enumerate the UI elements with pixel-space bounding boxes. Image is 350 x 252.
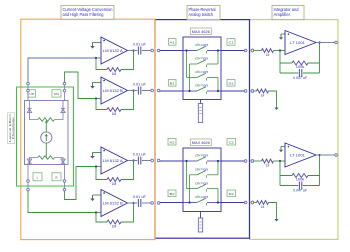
junction at integrator input (U6) [279, 160, 281, 162]
wire: port to switch 4 row 4 [160, 202, 183, 204]
svg-text:clk=on: clk=on [195, 84, 208, 88]
input port of section 2 (U2B row) [157, 202, 160, 205]
wire: output of U5 [316, 42, 335, 44]
coupling capacitor 0.01 uF of U2B [138, 199, 140, 207]
svg-text:clk=on: clk=on [195, 43, 208, 47]
bottom resistor of photodiode [30, 156, 64, 165]
feedback resistor 1M of U1B [107, 108, 121, 112]
svg-text:LT 1001: LT 1001 [290, 41, 305, 45]
diode top-right [61, 101, 65, 117]
junction at input of U2A [95, 165, 97, 167]
feedback capacitor 0.047 uF of U5 [299, 69, 301, 77]
switch SW1 of U3 [183, 43, 221, 53]
ground of integrator U5 [279, 34, 285, 40]
wire: output of U2A to coupling capacitor [128, 160, 151, 162]
op-amp U1B [101, 77, 128, 104]
output port of section 1 (U1B) [151, 89, 154, 92]
wire: input lead of U1A [96, 57, 101, 59]
label 0.01 uF of U1B [133, 83, 146, 87]
input port of section 2 (U1A row) [157, 49, 160, 52]
svg-text:LM 6132 B: LM 6132 B [103, 202, 124, 206]
svg-text:1M: 1M [112, 182, 117, 186]
svg-text:A2: A2 [170, 140, 175, 144]
svg-text:and High Pass Filtering: and High Pass Filtering [63, 12, 105, 17]
label 0.047 uF of U6 [293, 189, 307, 193]
wire: input lead of U2B [96, 212, 101, 214]
svg-text:0.047 uF: 0.047 uF [293, 76, 307, 80]
label 1M of U2B [112, 224, 117, 228]
wire: input lead of U1B [96, 98, 101, 100]
junction in U4 [217, 160, 219, 162]
svg-text:0.01 uF: 0.01 uF [133, 43, 146, 47]
crossover wire left B of U4 [189, 175, 191, 203]
svg-text:LM 6132 A: LM 6132 A [103, 159, 124, 163]
svg-text:clk=on: clk=on [195, 154, 208, 158]
terminal top-left of photodiode [27, 82, 30, 100]
wire: input lead of U2A [96, 166, 101, 168]
termination resistor 1k (U6) [257, 201, 269, 205]
switch SW3 of U3 [187, 70, 219, 80]
wire: U4 row 1 to output port [221, 160, 244, 162]
wire: port to termination resistor (U6) [254, 202, 257, 204]
output port pair row 1 of U3 [244, 49, 253, 52]
wire: photodiode R terminal to op-amp U2A input [65, 167, 97, 200]
crossover wire right C of U3 [217, 51, 219, 65]
analog switch IC body U4 [183, 148, 221, 212]
switch SW4 of U4 [183, 195, 221, 205]
label 1k termination (U6) [261, 205, 265, 209]
svg-text:Photodiode: Photodiode [11, 117, 15, 139]
net label box DN [52, 90, 61, 97]
switch SW4 of U3 [183, 84, 221, 94]
ground of integrator U6 [279, 147, 285, 153]
feedback wire of U2A [96, 161, 134, 180]
wire: output of U1A to coupling capacitor [128, 50, 151, 52]
output port pair row 1 of U4 [244, 160, 253, 163]
section box 2: Phase-Reversal Analog Switch (navy) [155, 20, 250, 239]
coupling capacitor 0.01 uF of U1A [138, 47, 140, 55]
wire: output of U2B to coupling capacitor [128, 202, 151, 204]
title box: Integrator and Amplifier [272, 6, 304, 20]
svg-text:1M: 1M [112, 224, 117, 228]
wire: photodiode L terminal to op-amp U2B input [28, 191, 96, 213]
op-amp LT 1001 (U5) [285, 31, 316, 55]
switch SW3 of U4 [187, 181, 219, 191]
junction in U3 [217, 49, 219, 51]
op-amp LT 1001 (U6) [285, 143, 316, 167]
net label box B1 [169, 80, 177, 87]
output port pair row 4 of U3 [244, 90, 253, 93]
feedback resistor 100k of U6 [292, 174, 308, 178]
termination input port (U5) [251, 90, 254, 93]
net label box B2 [168, 190, 176, 197]
svg-text:clk=on: clk=on [195, 195, 208, 199]
load resistor below U4 [198, 212, 202, 233]
junction in U3 [185, 49, 187, 51]
svg-text:100k: 100k [296, 65, 305, 69]
wire: port to resistor 1k (U5) [254, 50, 262, 52]
junction at input of U1A [95, 57, 97, 59]
label 1k of U5 [266, 53, 270, 57]
switch SW2 of U3 [190, 57, 219, 67]
wire: resistor to op-amp input (U6) [274, 160, 286, 162]
terminal top-right of photodiode [63, 82, 66, 100]
output port of section 1 (U2B) [151, 202, 154, 205]
switch SW1 of U4 [183, 154, 221, 164]
output port of U6 [335, 154, 338, 157]
wire: port to switch 3 row 4 [160, 90, 183, 92]
feedback capacitor 0.047 uF of U6 [299, 182, 301, 190]
feedback resistor 1M of U2A [107, 178, 121, 182]
label 0.01 uF of U1A [133, 43, 146, 47]
resistor 1k series of U5 [262, 49, 274, 53]
current source I1 [41, 132, 52, 143]
svg-text:1M: 1M [112, 72, 117, 76]
svg-text:clk=on: clk=on [195, 70, 208, 74]
svg-text:1k: 1k [266, 53, 270, 57]
output port of section 1 (U1A) [151, 49, 154, 52]
svg-text:1k: 1k [261, 205, 265, 209]
op-amp U1A [101, 37, 128, 64]
ground of U1B [90, 83, 101, 89]
feedback resistor 1M of U2B [107, 220, 121, 224]
wire: termination resistor to ground (U6) [269, 203, 279, 222]
junction at output of U1B [132, 89, 134, 91]
net label box A2 [168, 138, 176, 145]
feedback wire of U1A [96, 51, 134, 70]
net label box D2 [227, 190, 236, 197]
photodiode module outline (green box) [17, 87, 74, 186]
svg-text:0.01 uF: 0.01 uF [133, 153, 146, 157]
crossover wire right D of U4 [217, 189, 219, 203]
wire: port to termination resistor (U5) [254, 90, 257, 92]
label 100k of U5 [296, 65, 305, 69]
op-amp U2B [101, 190, 128, 217]
svg-text:C1: C1 [229, 41, 234, 45]
svg-text:LM 6132 A: LM 6132 A [103, 49, 124, 53]
junction in U4 [185, 160, 187, 162]
diode top-left [27, 101, 31, 117]
terminal bottom-left of photodiode [27, 165, 30, 191]
net label box C1 [227, 39, 235, 46]
wire from current source bottom to bottom resistor [45, 143, 47, 157]
svg-text:MAX 4626: MAX 4626 [192, 141, 210, 145]
wire: output of U6 [316, 154, 335, 156]
label 1M of U1A [112, 72, 117, 76]
output port of section 1 (U2A) [151, 159, 154, 162]
input port of section 2 (U2A row) [157, 159, 160, 162]
svg-text:clk=on: clk=on [195, 57, 208, 61]
crossover wire right D of U3 [217, 78, 219, 92]
net label box A1 [169, 39, 177, 46]
junction at input of U2B [95, 211, 97, 213]
svg-text:0.01 uF: 0.01 uF [133, 195, 146, 199]
wire: port to switch 4 row 1 [160, 160, 183, 162]
svg-text:A1: A1 [170, 41, 175, 45]
wire: resistor to op-amp input (U5) [274, 50, 286, 52]
switch SW2 of U4 [190, 168, 219, 178]
wire: port to resistor 1k (U6) [254, 160, 262, 162]
coupling capacitor 0.01 uF of U2A [138, 157, 140, 165]
analog switch IC body U3 [183, 37, 221, 100]
svg-text:B2: B2 [170, 192, 175, 196]
net label box UP [28, 90, 36, 97]
wire: U3 row 4 to output port [221, 90, 244, 92]
feedback wire of U2B [96, 203, 134, 222]
junction in U3 [217, 90, 219, 92]
ground of U2B [90, 195, 101, 201]
junction at output of U2A [132, 159, 134, 161]
terminal bottom-right of photodiode [63, 165, 66, 191]
crossover wire left A of U4 [186, 161, 188, 189]
junction in U4 [217, 201, 219, 203]
svg-text:100k: 100k [296, 177, 305, 181]
svg-text:clk=on: clk=on [195, 181, 208, 185]
ground of U1A [90, 43, 101, 49]
diode bottom-left [27, 159, 31, 163]
svg-text:UP: UP [29, 92, 34, 96]
svg-text:D1: D1 [229, 82, 234, 86]
junction at output of U2B [132, 202, 134, 204]
net label box D1 [227, 80, 235, 87]
label 100k of U6 [296, 177, 305, 181]
svg-text:0.01 uF: 0.01 uF [133, 83, 146, 87]
label 0.01 uF of U2B [133, 195, 146, 199]
ground of U2A [90, 153, 101, 159]
svg-text:clk=on: clk=on [195, 168, 208, 172]
svg-text:LT 1001: LT 1001 [290, 153, 305, 157]
input port of integrator U5 [251, 49, 254, 52]
svg-text:DN: DN [54, 92, 59, 96]
title box: Current-Voltage Conversion and High Pass Filtering [61, 6, 114, 20]
svg-text:MAX 4626: MAX 4626 [192, 30, 210, 34]
junction at output of U1A [132, 49, 134, 51]
coupling capacitor 0.01 uF of U1B [138, 87, 140, 95]
junction at output of U6 [318, 154, 320, 156]
photodiode inner body box [25, 101, 69, 165]
wire: port to switch 3 row 1 [160, 50, 183, 52]
svg-text:Amplifier: Amplifier [274, 12, 291, 17]
net label box L [33, 173, 42, 181]
input port of integrator U6 [251, 160, 254, 163]
feedback resistor 1M of U1A [107, 68, 121, 72]
junction at integrator input (U5) [279, 49, 281, 51]
junction in U4 [188, 201, 190, 203]
output port pair row 4 of U4 [244, 201, 253, 204]
net label box R [52, 173, 61, 181]
section box 1: Current-Voltage Conversion and High Pass Filtering (orange) [21, 19, 155, 239]
svg-text:Analog Switch: Analog Switch [189, 12, 214, 17]
wire: photodiode DN terminal to op-amp U1B input [65, 72, 97, 99]
title box: Phase-Reversal Analog Switch [187, 6, 220, 20]
wire: termination resistor to ground (U5) [269, 91, 279, 110]
label box: Lateral Effect Photodiode (rotated) [8, 113, 16, 144]
wire from current source top to top resistor (with up arrow) [45, 120, 48, 132]
junction at output of U5 [318, 41, 320, 43]
svg-text:1M: 1M [112, 112, 117, 116]
label box MAX 4626 (U4) [190, 139, 211, 146]
label 1M of U1B [112, 112, 117, 116]
diode bottom-right [61, 159, 65, 163]
net label box C2 [227, 138, 236, 145]
load resistor below U3 [198, 100, 202, 123]
svg-text:1k: 1k [261, 94, 265, 98]
wire: U4 row 4 to output port [221, 202, 244, 204]
crossover wire left A of U3 [186, 51, 188, 78]
junction at input of U1B [95, 97, 97, 99]
svg-text:B1: B1 [170, 82, 175, 86]
termination input port (U6) [251, 201, 254, 204]
label 0.047 uF of U5 [293, 76, 307, 80]
input port of section 2 (U1B row) [157, 89, 160, 92]
junction in U3 [188, 90, 190, 92]
op-amp U2A [101, 147, 128, 174]
label 0.01 uF of U2A [133, 153, 146, 157]
svg-text:C2: C2 [229, 140, 234, 144]
output port of U5 [335, 41, 338, 44]
feedback wire of U1B [96, 91, 134, 110]
label box MAX 4626 (U3) [190, 28, 211, 35]
label 1k of U6 [266, 164, 270, 168]
feedback wires of U5 [280, 43, 320, 74]
top resistor of photodiode [30, 117, 64, 122]
svg-text:1k: 1k [266, 164, 270, 168]
label 1k termination (U5) [261, 94, 265, 98]
crossover wire right C of U4 [217, 161, 219, 175]
resistor 1k series of U6 [262, 159, 274, 163]
svg-text:LM 6132 B: LM 6132 B [103, 89, 124, 93]
svg-text:0.047 uF: 0.047 uF [293, 189, 307, 193]
label 1M of U2A [112, 182, 117, 186]
section box 3: Integrator and Amplifier (olive) [250, 20, 339, 240]
feedback wires of U6 [280, 155, 320, 186]
wire: photodiode UP terminal to op-amp U1A input [28, 58, 96, 82]
termination resistor 1k (U5) [257, 89, 269, 93]
crossover wire left B of U3 [189, 64, 191, 91]
wire: output of U1B to coupling capacitor [128, 90, 151, 92]
feedback resistor 100k of U5 [292, 61, 308, 65]
svg-text:D2: D2 [229, 192, 234, 196]
wire: U3 row 1 to output port [221, 50, 244, 52]
